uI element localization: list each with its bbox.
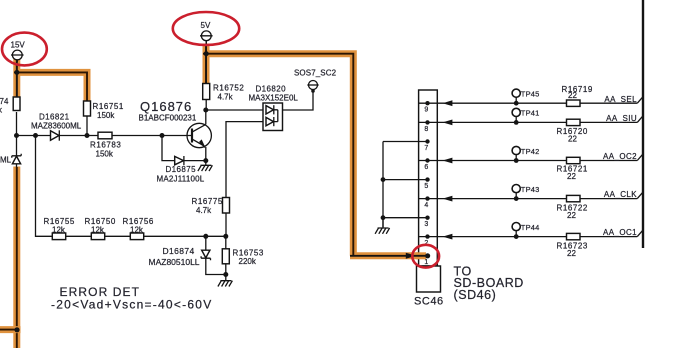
svg-text:1: 1 [424, 259, 428, 266]
power symbol 15V [11, 41, 26, 63]
svg-text:22: 22 [568, 91, 577, 100]
svg-text:4.7k: 4.7k [196, 206, 212, 215]
bus vertical line right [642, 0, 644, 248]
resistor R16775 4.7k [192, 197, 230, 236]
svg-text:22: 22 [568, 135, 577, 144]
pin 5 row ladder [381, 177, 430, 190]
svg-text:SOS7_SC2: SOS7_SC2 [294, 69, 337, 78]
svg-text:R16775: R16775 [192, 197, 223, 206]
node junction collector [203, 108, 208, 113]
text ERROR DET note [51, 285, 212, 312]
svg-text:5: 5 [424, 183, 428, 190]
svg-text:74: 74 [0, 97, 9, 106]
pin 9 row AA_SEL [419, 85, 643, 114]
dual diode D16820 MA3X152E0L [249, 85, 299, 131]
svg-text:Q16876: Q16876 [140, 99, 192, 114]
node junction R16751 bottom [85, 133, 90, 138]
svg-text:D16874: D16874 [163, 246, 195, 256]
svg-text:(SD46): (SD46) [454, 288, 497, 302]
pin 1 row from 5V highlight [350, 253, 430, 266]
text TO SD-BOARD (SD46) [454, 265, 524, 302]
resistor R16774 (partial, label cut "74") [0, 97, 20, 115]
power symbol 5V [200, 21, 213, 44]
svg-text:AA_OC2: AA_OC2 [603, 152, 637, 161]
connector SC46 box [419, 90, 438, 266]
zener diode D16874 MAZ80510LL [149, 236, 226, 274]
svg-text:MAZ80510LL: MAZ80510LL [149, 257, 200, 267]
svg-text:4.7k: 4.7k [218, 93, 234, 102]
pin 3 row ladder [381, 215, 430, 228]
transistor Q16876 B1ABCF000231 [139, 99, 212, 161]
svg-text:R16751: R16751 [93, 102, 124, 111]
node junction base/D16875 [160, 133, 165, 138]
wire base row [17, 135, 193, 137]
wire bottom-left horizontal highlighted [0, 326, 21, 333]
svg-text:B1ABCF000231: B1ABCF000231 [139, 114, 197, 123]
svg-text:22: 22 [567, 211, 576, 220]
svg-text:AA_SEL: AA_SEL [604, 95, 637, 104]
svg-text:-20<Vad+Vscn=-40<-60V: -20<Vad+Vscn=-40<-60V [51, 298, 212, 312]
svg-text:AA_SIU: AA_SIU [606, 114, 637, 123]
svg-text:MA3X152E0L: MA3X152E0L [249, 94, 299, 103]
svg-text:22: 22 [567, 172, 576, 181]
diode D16875 MA2J11100L [157, 136, 206, 184]
resistor R16750 12k [85, 217, 116, 240]
node junction at 15V branch [14, 70, 19, 75]
resistor R16751 150k [84, 101, 124, 136]
svg-text:R16719: R16719 [562, 85, 593, 94]
svg-text:AA_CLK: AA_CLK [604, 190, 637, 199]
wire 12k branch down [36, 136, 227, 237]
red ellipse around 15V [2, 33, 47, 66]
node junction ground [223, 272, 228, 277]
pin 2 row AA_OC1 [419, 223, 643, 259]
wire 15V stem core [16, 60, 18, 97]
wire pin1 highlight inside box [416, 252, 426, 259]
svg-text:MAZ83600ML: MAZ83600ML [31, 122, 82, 131]
node junction D16874 top [203, 234, 208, 239]
svg-text:R16783: R16783 [90, 141, 121, 150]
node junction bottom-left [14, 327, 19, 332]
svg-text:MA2J11100L: MA2J11100L [157, 175, 205, 184]
pin 7 row to ground ladder [383, 139, 430, 152]
pin 6 row AA_OC2 [419, 146, 643, 181]
svg-text:150k: 150k [96, 150, 114, 159]
svg-text:15V: 15V [11, 41, 26, 50]
wire 15V net long left vertical highlighted [13, 167, 20, 348]
connector SC46 lower box [417, 266, 441, 292]
svg-text:150k: 150k [97, 111, 115, 120]
pin 4 row AA_CLK [419, 185, 643, 221]
svg-text:R16752: R16752 [213, 84, 244, 93]
ground ladder [375, 218, 390, 234]
svg-text:TP42: TP42 [521, 147, 540, 156]
resistor R16756 12k [123, 217, 154, 240]
svg-text:9: 9 [424, 107, 428, 114]
resistor R16783 150k [90, 132, 121, 158]
power symbol SOS7_SC2 [283, 69, 337, 111]
wire 15V highlighted: stem down, right, down to R16751 (orange band) [14, 59, 88, 101]
svg-text:220k: 220k [239, 257, 257, 266]
svg-text:TP41: TP41 [521, 109, 540, 118]
svg-text:7: 7 [424, 145, 428, 152]
wire ladder vertical to ground [382, 142, 384, 228]
node junction 5V branch [204, 51, 209, 56]
ground at emitter [198, 161, 213, 172]
svg-text:TP43: TP43 [521, 185, 540, 194]
svg-text:22: 22 [567, 249, 576, 258]
svg-text:3: 3 [424, 221, 428, 228]
wire 5V highlighted: stem, top horizontal, right vertical, into pin1 [203, 44, 427, 256]
zener diode ML (partial label) [0, 136, 21, 168]
red ellipse around 5V [173, 12, 239, 45]
resistor R16752 4.7k [203, 84, 245, 111]
svg-text:D16820: D16820 [256, 85, 287, 94]
red circle around pin 1 [412, 245, 439, 268]
svg-text:AA_OC1: AA_OC1 [603, 228, 637, 237]
diode D16821 MAZ83600ML [31, 113, 82, 141]
wire collector to D16820 [206, 109, 263, 111]
wire D16820 bottom-left to R16775 [226, 122, 263, 198]
svg-text:SC46: SC46 [414, 296, 444, 308]
ground below R16753 [218, 275, 233, 287]
wire R16774 to node [16, 112, 18, 136]
node junction 12k branch [33, 133, 38, 138]
svg-text:D16821: D16821 [39, 113, 70, 122]
svg-text:4: 4 [424, 202, 428, 209]
pin 8 row AA_SIU [419, 108, 643, 143]
wire 5V stem core [205, 41, 207, 84]
svg-text:6: 6 [424, 164, 428, 171]
node junction emitter [203, 158, 208, 163]
svg-text:8: 8 [424, 126, 428, 133]
resistor R16753 220k [222, 236, 264, 274]
svg-text:TP45: TP45 [521, 90, 540, 99]
svg-text:D16875: D16875 [166, 165, 197, 174]
resistor R16755 12k [44, 217, 75, 240]
node junction left column [14, 133, 19, 138]
node junction R16753 top [223, 234, 228, 239]
svg-text:TP44: TP44 [521, 223, 540, 232]
svg-text:5V: 5V [201, 21, 211, 30]
svg-text:ML: ML [0, 156, 12, 165]
